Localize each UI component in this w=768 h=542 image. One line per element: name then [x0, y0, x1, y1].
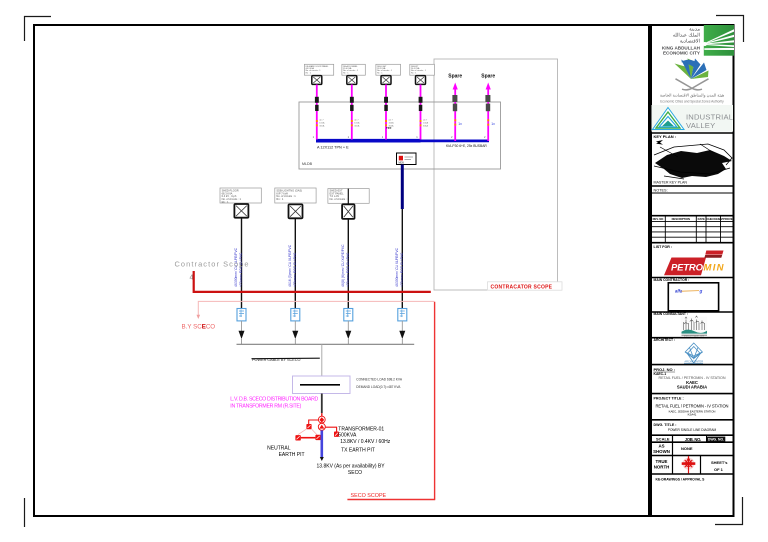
- svg-text:NONE: NONE: [681, 446, 693, 451]
- svg-text:الاقتصادية: الاقتصادية: [680, 39, 700, 45]
- svg-text:+70 mm² ECC CU PVC: +70 mm² ECC CU PVC: [239, 252, 243, 287]
- svg-text:NORTH: NORTH: [654, 465, 670, 470]
- svg-text:Rn : 1: Rn : 1: [411, 72, 417, 74]
- svg-text:2: 2: [451, 135, 453, 139]
- svg-text:100A: 100A: [423, 122, 429, 125]
- svg-text:Rn : 1: Rn : 1: [377, 72, 383, 74]
- svg-text:ab 7: ab 7: [423, 120, 428, 122]
- svg-text:1: 1: [382, 135, 384, 139]
- svg-text:TRUE: TRUE: [656, 459, 668, 464]
- svg-text:100A: 100A: [389, 122, 395, 125]
- svg-text:MASTER KEY PLAN: MASTER KEY PLAN: [654, 180, 688, 184]
- svg-text:13.8KV (As per availability): 13.8KV (As per availability) BY: [317, 463, 386, 469]
- svg-text:A 12X112 TPN + E: A 12X112 TPN + E: [317, 145, 349, 149]
- svg-text:ARCHICENTER: ARCHICENTER: [684, 360, 703, 364]
- svg-text:ECONOMIC CITY: ECONOMIC CITY: [663, 51, 700, 56]
- svg-text:NOTES:: NOTES:: [654, 188, 668, 192]
- svg-text:MAIN CONSULTANT :: MAIN CONSULTANT :: [654, 312, 689, 316]
- svg-text:TRANSFORMER-01: TRANSFORMER-01: [338, 426, 384, 432]
- svg-text:ab 7: ab 7: [389, 120, 394, 122]
- svg-text:Rn : 1: Rn : 1: [276, 197, 283, 201]
- svg-text:KE-DRAWINGS / APPROVAL S: KE-DRAWINGS / APPROVAL S: [656, 478, 706, 482]
- svg-text:SHEET’s: SHEET’s: [711, 460, 728, 465]
- svg-text:MIN: MIN: [704, 263, 725, 274]
- svg-text:2: 2: [484, 135, 486, 139]
- svg-text:DWG. NO.: DWG. NO.: [708, 438, 724, 442]
- svg-text:30kA: 30kA: [319, 125, 325, 128]
- svg-text:PROJ. NO :: PROJ. NO :: [654, 367, 676, 372]
- svg-text:KEY PLAN :: KEY PLAN :: [654, 134, 677, 139]
- svg-text:APPROVED: APPROVED: [719, 217, 734, 221]
- svg-text:ab 7: ab 7: [319, 120, 324, 122]
- svg-text:TFF: TFF: [386, 126, 392, 130]
- svg-text:CHECKED: CHECKED: [707, 217, 720, 221]
- svg-text:REV. NO: REV. NO: [653, 217, 664, 221]
- svg-text:KING ABDULLAH: KING ABDULLAH: [662, 45, 701, 50]
- svg-text:TX EARTH PIT: TX EARTH PIT: [341, 447, 375, 453]
- svg-text:L.V. D.B. SCECO DISTRIBUTION B: L.V. D.B. SCECO DISTRIBUTION BOARD: [230, 397, 318, 403]
- svg-text:DWG. TITLE :: DWG. TITLE :: [654, 423, 677, 427]
- svg-text:MDB: MDB: [399, 161, 405, 164]
- svg-text:KIA-P30 6+E, 25x BUSBAR: KIA-P30 6+E, 25x BUSBAR: [446, 144, 487, 148]
- svg-text:SECO SCOPE: SECO SCOPE: [351, 493, 387, 499]
- svg-text:1x: 1x: [491, 122, 495, 126]
- svg-text:IN TRANSFORMER RM (R.SITE): IN TRANSFORMER RM (R.SITE): [230, 403, 301, 409]
- svg-text:Economic Cities and Special Zo: Economic Cities and Special Zones Author…: [660, 99, 724, 103]
- svg-text:AS: AS: [658, 443, 664, 448]
- svg-text:No. of circuits : 1: No. of circuits : 1: [330, 197, 350, 201]
- svg-text:4X300mm²´CU XLPE/PVC: 4X300mm²´CU XLPE/PVC: [395, 247, 399, 287]
- svg-text:100A: 100A: [354, 122, 360, 125]
- svg-text:Rn : 1: Rn : 1: [222, 200, 229, 204]
- svg-text:w w w . a r r i y a d h . c o: w w w . a r r i y a d h . c o m: [684, 336, 704, 338]
- svg-text:4X16 (3)mm²´CU XLPE/PVC: 4X16 (3)mm²´CU XLPE/PVC: [288, 244, 292, 287]
- svg-text:JOB. NO.: JOB. NO.: [685, 437, 702, 442]
- svg-text:Rn : 1: Rn : 1: [306, 72, 312, 74]
- svg-text:POWER SINGLE LINE DIAGRAM: POWER SINGLE LINE DIAGRAM: [668, 428, 717, 432]
- svg-text:MLDB: MLDB: [302, 162, 313, 166]
- svg-text:SCALE: SCALE: [656, 437, 670, 442]
- svg-text:PROJECT TITLE :: PROJECT TITLE :: [654, 397, 684, 401]
- svg-text:RETAIL FUEL / PETROMIN - IV ST: RETAIL FUEL / PETROMIN - IV STATION: [656, 403, 729, 408]
- svg-text:Spare: Spare: [481, 74, 495, 80]
- svg-text:1: 1: [313, 135, 315, 139]
- svg-text:CONNECTED LOAD 698.2 KVA: CONNECTED LOAD 698.2 KVA: [356, 378, 403, 382]
- svg-text:+70 mm² ECC CU PVC: +70 mm² ECC CU PVC: [293, 252, 297, 287]
- svg-text:DESCRIPTION: DESCRIPTION: [672, 217, 690, 221]
- svg-text:500KVA: 500KVA: [338, 433, 357, 439]
- svg-text:30kA: 30kA: [354, 125, 360, 128]
- svg-text:30kA: 30kA: [423, 125, 429, 128]
- svg-text:LIST FOR :: LIST FOR :: [654, 245, 673, 249]
- svg-text:EARTH PIT: EARTH PIT: [279, 452, 305, 458]
- svg-text:13.8KV / 0.4KV / 60Hz: 13.8KV / 0.4KV / 60Hz: [340, 439, 391, 445]
- svg-text:NEUTRAL: NEUTRAL: [267, 445, 291, 451]
- svg-text:هيئة المدن والمناطق الاقتصادية: هيئة المدن والمناطق الاقتصادية الخاصة: [660, 93, 724, 98]
- svg-text:B.Y SCECO: B.Y SCECO: [182, 323, 216, 330]
- svg-text:Spare: Spare: [448, 74, 462, 80]
- svg-text:4X(8) (6)mm²´CU XLPE/PVC: 4X(8) (6)mm²´CU XLPE/PVC: [341, 244, 345, 287]
- svg-text:+70 mm² ECC CU PVC: +70 mm² ECC CU PVC: [400, 252, 404, 287]
- svg-text:SECO: SECO: [348, 470, 362, 476]
- svg-text:1: 1: [416, 135, 418, 139]
- svg-text:Rn : 1: Rn : 1: [343, 72, 349, 74]
- svg-text:DEMAND LOAD(0.7)=487 KVA: DEMAND LOAD(0.7)=487 KVA: [356, 385, 401, 389]
- svg-text:SAUDI ARABIA: SAUDI ARABIA: [677, 384, 707, 389]
- svg-text:1x: 1x: [458, 122, 462, 126]
- svg-text:CONTRACATOR SCOPE: CONTRACATOR SCOPE: [491, 284, 553, 290]
- svg-text:ARCHITECT :: ARCHITECT :: [654, 338, 676, 342]
- svg-text:OF 1: OF 1: [714, 467, 724, 472]
- svg-text:KSA41: KSA41: [688, 413, 697, 417]
- svg-text:100A: 100A: [319, 122, 325, 125]
- svg-text:ab 7: ab 7: [354, 120, 359, 122]
- svg-text:g: g: [699, 289, 703, 294]
- svg-text:SHOWN: SHOWN: [653, 449, 670, 454]
- svg-text:+70 mm² ECC CU PVC: +70 mm² ECC CU PVC: [346, 252, 350, 287]
- svg-text:MAIN CONTRACTOR :: MAIN CONTRACTOR :: [654, 278, 690, 282]
- svg-text:PETRO: PETRO: [671, 263, 704, 274]
- svg-text:Contractor Scope: Contractor Scope: [175, 260, 250, 269]
- svg-text:1: 1: [348, 135, 350, 139]
- svg-text:DATE: DATE: [698, 217, 705, 221]
- svg-text:VALLEY: VALLEY: [686, 121, 715, 130]
